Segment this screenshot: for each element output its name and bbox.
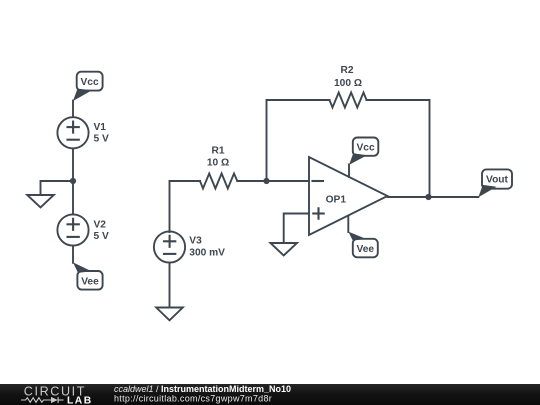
wire V3 bottom to ground bbox=[169, 263, 171, 308]
ground (below V3) bbox=[156, 308, 183, 321]
wire feedback left vertical (node A up from junction) bbox=[267, 100, 330, 181]
svg-text:OP1: OP1 bbox=[326, 194, 347, 205]
ground (at op-amp + input) bbox=[270, 243, 297, 256]
svg-text:LAB: LAB bbox=[67, 396, 93, 405]
flag Vcc (net Vcc, top of V1) bbox=[73, 72, 103, 101]
svg-text:5 V: 5 V bbox=[94, 134, 109, 145]
wire op-amp non-inverting input to ground bbox=[284, 214, 309, 244]
wire V1 bottom to V2 top bbox=[72, 148, 74, 214]
wire R1 to op-amp inverting input bbox=[237, 180, 309, 182]
svg-text:V1: V1 bbox=[94, 122, 107, 133]
svg-text:http://circuitlab.com/cs7gwpw7: http://circuitlab.com/cs7gwpw7m7d8r bbox=[114, 394, 272, 404]
svg-text:V2: V2 bbox=[94, 219, 107, 230]
flag Vee (net Vee, bottom of V2) bbox=[73, 262, 103, 289]
svg-text:Vee: Vee bbox=[357, 244, 375, 255]
voltage source V2 bbox=[57, 214, 109, 245]
wire op-amp Vee pin stub bbox=[347, 216, 349, 232]
voltage source V1 bbox=[57, 117, 109, 148]
resistor R2 bbox=[330, 65, 367, 107]
wire op-amp Vcc pin stub bbox=[348, 165, 350, 178]
svg-text:ccaldwel1 / InstrumentationMid: ccaldwel1 / InstrumentationMidterm_No10 bbox=[114, 384, 291, 394]
wire V3 top up and right to R1 bbox=[170, 181, 201, 232]
resistor R1 bbox=[200, 145, 237, 188]
svg-text:V3: V3 bbox=[189, 236, 202, 247]
wire feedback right side down to output bbox=[367, 100, 430, 197]
CircuitLab logo bbox=[21, 385, 93, 405]
wire Vcc flag to V1 top bbox=[72, 101, 74, 118]
svg-text:Vout: Vout bbox=[486, 175, 508, 186]
node junction at output / feedback bbox=[425, 194, 431, 200]
node junction at R1 / R2 / op-amp minus bbox=[263, 178, 269, 184]
ground (left, between V1 and V2) bbox=[27, 195, 54, 208]
svg-text:Vcc: Vcc bbox=[357, 142, 375, 153]
svg-text:300 mV: 300 mV bbox=[189, 248, 225, 259]
flag Vcc (op-amp positive supply) bbox=[349, 138, 378, 165]
svg-text:10 Ω: 10 Ω bbox=[207, 158, 229, 169]
svg-text:R2: R2 bbox=[340, 65, 353, 76]
wire V2 bottom to Vee flag bbox=[72, 246, 74, 263]
node junction between V1 and V2 bbox=[70, 178, 76, 184]
svg-text:Vcc: Vcc bbox=[81, 77, 99, 88]
flag Vout (output) bbox=[478, 169, 512, 197]
wire op-amp output bbox=[388, 196, 479, 198]
wire junction to ground bbox=[41, 181, 74, 195]
flag Vee (op-amp negative supply) bbox=[348, 232, 378, 258]
svg-text:R1: R1 bbox=[211, 145, 224, 156]
svg-text:Vee: Vee bbox=[81, 276, 99, 287]
svg-text:5 V: 5 V bbox=[94, 231, 109, 242]
svg-text:100 Ω: 100 Ω bbox=[334, 78, 362, 89]
voltage source V3 bbox=[154, 231, 225, 262]
op-amp OP1 bbox=[309, 157, 388, 235]
